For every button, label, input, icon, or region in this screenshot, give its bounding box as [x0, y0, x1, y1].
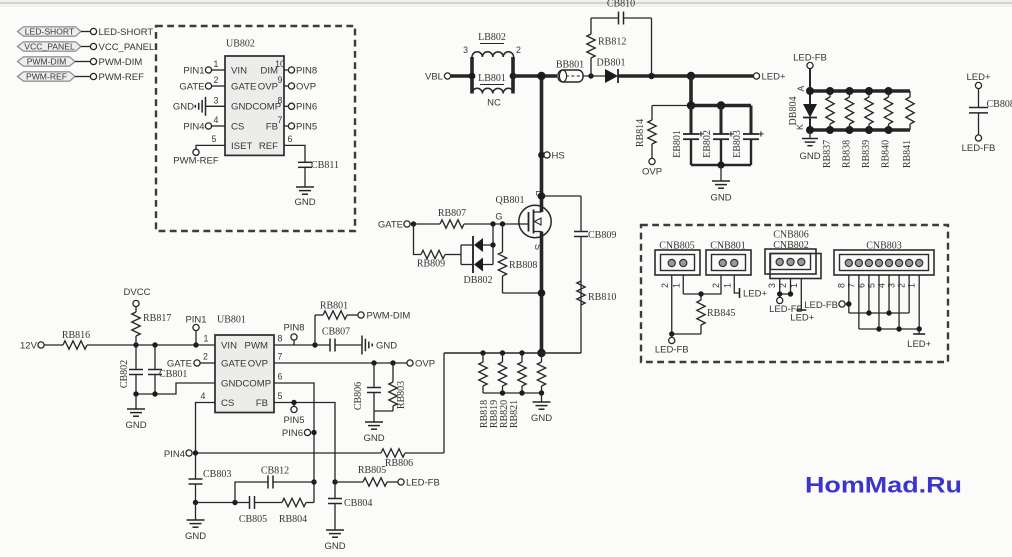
svg-text:EB803: EB803: [732, 130, 743, 158]
svg-text:8: 8: [836, 283, 846, 288]
svg-text:LED+: LED+: [907, 339, 931, 350]
resistor RB816: [62, 330, 90, 349]
CNB803 odd/even wiring: [849, 275, 922, 332]
svg-text:PIN8: PIN8: [283, 323, 304, 334]
cap bank bottom bus: [691, 161, 751, 168]
CNB802 pins: [767, 279, 801, 311]
svg-text:DB802: DB802: [464, 275, 493, 286]
node PIN8: [283, 323, 304, 346]
svg-text:RB809: RB809: [417, 259, 445, 270]
svg-text:GND: GND: [799, 151, 820, 162]
svg-text:10: 10: [275, 59, 285, 69]
svg-text:LED+: LED+: [762, 72, 786, 83]
node LED-FB (CNB805): [655, 331, 689, 355]
svg-text:RB816: RB816: [62, 330, 90, 341]
wire PIN4 row to sense bus: [196, 353, 445, 453]
svg-text:PIN8: PIN8: [296, 65, 317, 76]
resistor RB818: [479, 353, 487, 393]
capacitor CB808: [969, 99, 1012, 135]
node LED+ (output): [753, 72, 786, 83]
svg-text:G: G: [495, 212, 502, 222]
svg-text:7: 7: [278, 115, 283, 125]
svg-text:CB810: CB810: [607, 0, 635, 10]
svg-text:GND: GND: [173, 102, 194, 113]
svg-text:3: 3: [887, 283, 897, 288]
svg-text:GATE: GATE: [378, 220, 403, 231]
svg-text:CB812: CB812: [261, 466, 289, 477]
svg-text:OVP: OVP: [415, 358, 435, 369]
resistor RB809: [414, 224, 462, 270]
resistor RB812 snubber: [587, 18, 627, 76]
svg-text:GND: GND: [710, 193, 731, 204]
svg-text:LED+: LED+: [743, 289, 767, 300]
svg-text:RB817: RB817: [143, 313, 171, 324]
resistor RB806: [381, 449, 413, 469]
svg-text:6: 6: [278, 372, 283, 382]
svg-text:PWM-DIM: PWM-DIM: [27, 57, 67, 67]
svg-text:DB804: DB804: [788, 97, 799, 126]
resistor RB845: [672, 294, 736, 334]
wire diode to LED+: [618, 72, 753, 80]
wire source vertical: [537, 232, 545, 358]
svg-text:QB801: QB801: [496, 195, 525, 206]
diode DB801: [597, 58, 626, 84]
svg-text:RB808: RB808: [509, 260, 537, 271]
resistor RB820: [518, 353, 526, 393]
svg-text:RB845: RB845: [707, 308, 735, 319]
svg-text:7: 7: [278, 352, 283, 362]
dashed boundary box (UB802 section): [156, 26, 355, 231]
svg-text:CB811: CB811: [311, 160, 339, 171]
svg-text:FB: FB: [266, 121, 278, 132]
connector CNB805: [655, 241, 700, 276]
svg-text:LED-FB: LED-FB: [655, 345, 689, 356]
svg-text:2: 2: [203, 352, 208, 362]
svg-text:3: 3: [767, 283, 777, 288]
resistor RB841: [902, 91, 914, 168]
ground at CB811: [294, 187, 315, 208]
resistor RB837: [822, 91, 834, 168]
svg-text:CB808: CB808: [987, 99, 1012, 110]
ferrite bead BB801: [556, 60, 584, 83]
node PIN1: [185, 315, 208, 346]
UB801 pin 6 COMP wire: [274, 372, 317, 503]
resistor RB821: [537, 353, 545, 393]
svg-text:1: 1: [671, 283, 681, 288]
capacitor CB805: [239, 496, 282, 525]
svg-text:2: 2: [214, 75, 219, 85]
net flag PWM-DIM: [18, 57, 143, 68]
capacitor CB801: [148, 345, 187, 394]
svg-text:3: 3: [463, 45, 468, 55]
svg-text:RB840: RB840: [881, 140, 892, 168]
wire drain vertical: [538, 76, 546, 212]
resistor RB801 to PWM-DIM: [315, 301, 358, 346]
transistor QB801 (N-MOSFET): [495, 190, 551, 250]
svg-text:PWM-REF: PWM-REF: [173, 156, 219, 167]
svg-text:RB803: RB803: [396, 381, 407, 409]
svg-text:PIN5: PIN5: [296, 121, 317, 132]
svg-text:PIN1: PIN1: [183, 65, 204, 76]
svg-text:RB810: RB810: [588, 292, 616, 303]
connector CNB803: [834, 241, 934, 276]
resistor RB807: [414, 208, 518, 228]
svg-text:EB801: EB801: [672, 130, 683, 158]
UB801 pin 5 FB wire: [274, 391, 338, 485]
svg-text:LED-FB: LED-FB: [962, 143, 996, 154]
wire CNB805 pin1 to CNB801 pin2: [683, 275, 721, 297]
resistor RB803: [389, 363, 407, 411]
ground at DB804: [799, 130, 820, 162]
svg-text:GND: GND: [531, 413, 552, 424]
svg-text:RB838: RB838: [842, 140, 853, 168]
inductor LB801: [472, 73, 514, 109]
svg-text:GND: GND: [294, 197, 315, 208]
ground at CB802: [125, 394, 146, 431]
svg-text:OVP: OVP: [642, 167, 662, 178]
svg-text:RB806: RB806: [385, 458, 413, 469]
svg-text:FB: FB: [256, 398, 268, 409]
UB802 pin 1 PIN1: [183, 59, 225, 76]
svg-text:VIN: VIN: [231, 65, 247, 76]
node LED+ (CB808): [966, 72, 990, 108]
svg-text:6: 6: [856, 283, 866, 288]
svg-text:UB802: UB802: [226, 39, 255, 50]
UB802 pin 3 GND: [173, 95, 225, 116]
svg-text:GND: GND: [363, 433, 384, 444]
resistor RB804: [279, 498, 314, 525]
op-amp U: LED driver IC UB802: [225, 39, 284, 156]
UB802 pin 8 PIN6: [278, 95, 318, 112]
svg-text:2: 2: [711, 283, 721, 288]
svg-text:4: 4: [201, 391, 206, 401]
node PIN4: [164, 449, 198, 460]
svg-text:PIN6: PIN6: [296, 102, 317, 113]
wire inductor to bead: [469, 72, 557, 80]
svg-text:ISET: ISET: [231, 141, 252, 152]
svg-text:CB802: CB802: [119, 360, 130, 388]
svg-text:RB801: RB801: [320, 301, 348, 312]
svg-text:HS: HS: [552, 151, 565, 162]
svg-text:OVP: OVP: [248, 358, 268, 369]
svg-text:OVP: OVP: [296, 81, 316, 92]
UB801 pin 8 PWM wire: [274, 334, 330, 348]
svg-text:RB821: RB821: [509, 400, 520, 428]
node LED-FB (CNB802): [769, 291, 803, 315]
UB802 pin 5 ISET to PWM-REF: [173, 134, 225, 166]
dashed boundary box (connector section): [641, 225, 948, 362]
svg-text:PIN5: PIN5: [283, 415, 304, 426]
svg-text:7: 7: [846, 283, 856, 288]
node LED-FB (DB804): [793, 53, 827, 92]
CNB803 pin numbers: [836, 283, 916, 288]
resistor RB805 to LED-FB: [335, 465, 398, 486]
DB804 bottom bus: [806, 126, 910, 134]
capacitor CB810 snubber: [591, 0, 652, 76]
svg-text:DB801: DB801: [597, 58, 626, 69]
svg-text:GATE: GATE: [221, 358, 246, 369]
svg-text:NC: NC: [487, 98, 501, 109]
UB802 pin 9 OVP: [278, 75, 317, 92]
ground at CB806/RB803: [363, 411, 393, 444]
svg-text:GND: GND: [376, 340, 397, 351]
capacitor CB803: [189, 453, 232, 503]
svg-text:RB841: RB841: [902, 140, 913, 168]
wire bead to diode: [583, 73, 605, 78]
node LED-FB (CNB803): [804, 300, 851, 311]
svg-text:UB801: UB801: [217, 315, 246, 326]
svg-text:5: 5: [866, 283, 876, 288]
svg-text:CB801: CB801: [159, 369, 187, 380]
node OVP (RB814): [642, 158, 662, 177]
svg-text:CS: CS: [221, 398, 234, 409]
svg-text:LB801: LB801: [478, 73, 506, 84]
svg-text:4: 4: [877, 283, 887, 288]
UB802 pin 7 PIN5: [278, 115, 318, 132]
electrolytic capacitor EB803: [732, 106, 764, 166]
svg-text:6: 6: [288, 134, 293, 144]
svg-text:HomMad.Ru: HomMad.Ru: [805, 473, 962, 498]
svg-text:CB804: CB804: [344, 498, 372, 509]
ground at CB803: [185, 500, 206, 542]
svg-text:GNDCOMP: GNDCOMP: [221, 378, 271, 389]
node HS: [538, 151, 565, 162]
svg-text:1: 1: [204, 334, 209, 344]
svg-text:BB801: BB801: [556, 60, 584, 71]
svg-text:PWM-DIM: PWM-DIM: [99, 57, 143, 68]
svg-text:A: A: [796, 85, 806, 91]
svg-text:2: 2: [660, 283, 670, 288]
svg-text:1: 1: [907, 283, 917, 288]
capacitor CB812 parallel branch: [235, 466, 314, 503]
wire sense bus: [444, 350, 581, 355]
node LED-FB (CB808): [962, 135, 996, 154]
svg-text:CS: CS: [231, 121, 244, 132]
capacitor CB804: [328, 482, 372, 530]
UB802 pin 10 PIN8: [275, 59, 317, 76]
resistor RB817: [132, 312, 172, 345]
svg-text:PIN6: PIN6: [282, 428, 303, 439]
svg-text:CB806: CB806: [353, 382, 364, 410]
node VBL: [425, 72, 472, 83]
svg-text:LED-FB: LED-FB: [406, 477, 440, 488]
resistor RB838: [842, 91, 854, 168]
dual diode DB802: [461, 236, 493, 286]
svg-text:8: 8: [278, 334, 283, 344]
resistor RB819: [498, 353, 506, 393]
connector CNB801: [706, 241, 751, 276]
net flag LED-SHORT: [18, 27, 154, 38]
resistor RB814 to OVP: [635, 106, 691, 159]
UB802 pin 6 REF wire: [284, 134, 305, 162]
ground at CB804: [324, 530, 345, 552]
svg-text:5: 5: [212, 134, 217, 144]
svg-text:PWM: PWM: [245, 340, 268, 351]
capacitor CB802: [119, 345, 143, 394]
electrolytic capacitor EB801: [672, 106, 704, 166]
svg-text:OVP: OVP: [258, 81, 278, 92]
capacitor CB811: [298, 160, 339, 187]
svg-text:VIN: VIN: [221, 340, 237, 351]
svg-text:VCC_PANEL: VCC_PANEL: [99, 42, 155, 53]
wire CB802/CB801 bottom bus to UB801 pin3: [133, 383, 215, 397]
resistor RB810: [577, 281, 617, 305]
svg-text:GNDCOMP: GNDCOMP: [231, 102, 281, 113]
svg-text:RB812: RB812: [598, 37, 626, 48]
svg-text:+: +: [758, 129, 764, 141]
svg-text:RB814: RB814: [635, 119, 646, 147]
svg-text:GATE: GATE: [167, 358, 192, 369]
connector CNB806/CNB802: [765, 230, 821, 279]
svg-text:CB805: CB805: [239, 514, 267, 525]
resistor RB840: [881, 91, 893, 168]
net flag VCC_PANEL: [18, 42, 155, 53]
svg-text:CNB806: CNB806: [773, 230, 809, 241]
UB801 pin 4 CS wire to PIN4: [196, 391, 216, 453]
node PIN5: [283, 403, 304, 427]
svg-text:5: 5: [278, 391, 283, 401]
svg-text:LED-FB: LED-FB: [804, 300, 838, 311]
DB804 top bus: [806, 87, 910, 95]
svg-text:3: 3: [214, 95, 219, 105]
sense bottom bus: [483, 390, 544, 395]
svg-text:CB803: CB803: [203, 469, 231, 480]
ground at sense bus: [531, 393, 552, 424]
net flag PWM-REF: [18, 72, 145, 83]
ground at CB807 (GND): [362, 336, 397, 355]
top page border line: [0, 0, 1012, 7]
svg-text:PIN4: PIN4: [183, 121, 204, 132]
UB801 pin 7 OVP wire: [274, 352, 407, 366]
resistor RB839: [861, 91, 873, 168]
svg-text:2: 2: [516, 45, 521, 55]
node PIN6: [282, 428, 311, 439]
svg-text:VBL: VBL: [425, 72, 443, 83]
capacitor CB807: [322, 327, 362, 352]
svg-text:GATE: GATE: [231, 81, 256, 92]
svg-text:RB839: RB839: [861, 140, 872, 168]
svg-text:GATE: GATE: [179, 81, 204, 92]
node LED+ (CNB801): [734, 275, 767, 300]
wire gate to DB802: [490, 224, 495, 248]
wire CB803 to CB805: [196, 500, 250, 505]
svg-text:RB805: RB805: [358, 465, 386, 476]
watermark HomMad.Ru: [805, 473, 962, 498]
node PWM-DIM: [358, 310, 410, 321]
svg-text:9: 9: [278, 75, 283, 85]
svg-text:1: 1: [214, 59, 219, 69]
electrolytic capacitor EB802: [702, 106, 734, 166]
svg-text:VCC_PANEL: VCC_PANEL: [24, 42, 75, 52]
svg-text:PIN4: PIN4: [164, 449, 185, 460]
svg-text:GND: GND: [125, 420, 146, 431]
svg-text:EB802: EB802: [702, 130, 713, 158]
op-amp U: LED driver IC UB801: [215, 315, 274, 413]
resistor RB808: [498, 224, 541, 293]
wire 12V to UB801 VIN: [87, 342, 215, 347]
node 12V input: [20, 341, 63, 352]
svg-text:PWM-REF: PWM-REF: [99, 72, 145, 83]
svg-text:LED-SHORT: LED-SHORT: [99, 27, 154, 38]
ground at cap bank: [710, 165, 731, 204]
svg-text:PWM-REF: PWM-REF: [26, 72, 67, 82]
svg-text:CB809: CB809: [588, 230, 616, 241]
capacitor CB806: [353, 363, 381, 411]
svg-text:RB804: RB804: [279, 514, 307, 525]
diode DB804: [788, 85, 817, 130]
svg-text:GND: GND: [185, 531, 206, 542]
svg-text:4: 4: [214, 115, 219, 125]
svg-text:REF: REF: [259, 141, 278, 152]
svg-text:1: 1: [722, 283, 732, 288]
capacitor CB809: [542, 196, 617, 353]
wire LED+ to cap bank: [687, 76, 751, 110]
svg-text:PWM-DIM: PWM-DIM: [367, 310, 411, 321]
node OVP: [407, 358, 435, 369]
CNB801 pin numbers: [711, 283, 733, 288]
node LED+ (CNB803): [907, 329, 931, 350]
node DVCC: [124, 287, 151, 312]
UB802 pin 4 PIN4: [183, 115, 225, 132]
svg-text:CB807: CB807: [322, 327, 350, 338]
svg-text:LED-SHORT: LED-SHORT: [25, 27, 75, 37]
svg-text:8: 8: [278, 95, 283, 105]
svg-text:LED+: LED+: [790, 313, 814, 324]
svg-text:LED+: LED+: [966, 72, 990, 83]
svg-text:RB837: RB837: [822, 140, 833, 168]
svg-text:12V: 12V: [20, 341, 38, 352]
svg-text:DVCC: DVCC: [124, 287, 151, 298]
CNB805 pins: [660, 275, 684, 334]
labels RB818-RB821: [479, 400, 520, 428]
svg-text:GND: GND: [324, 541, 345, 552]
UB802 pin 2 GATE: [179, 75, 225, 92]
svg-text:LB802: LB802: [478, 32, 506, 43]
svg-text:2: 2: [897, 283, 907, 288]
inductor LB802: [463, 32, 521, 94]
UB801 pin 2 GATE: [167, 352, 215, 370]
node GATE: [378, 220, 416, 231]
node LED-FB (RB805): [398, 477, 440, 488]
svg-text:RB807: RB807: [438, 208, 466, 219]
node LED+ (CNB802): [790, 310, 814, 324]
svg-text:K: K: [795, 124, 805, 130]
